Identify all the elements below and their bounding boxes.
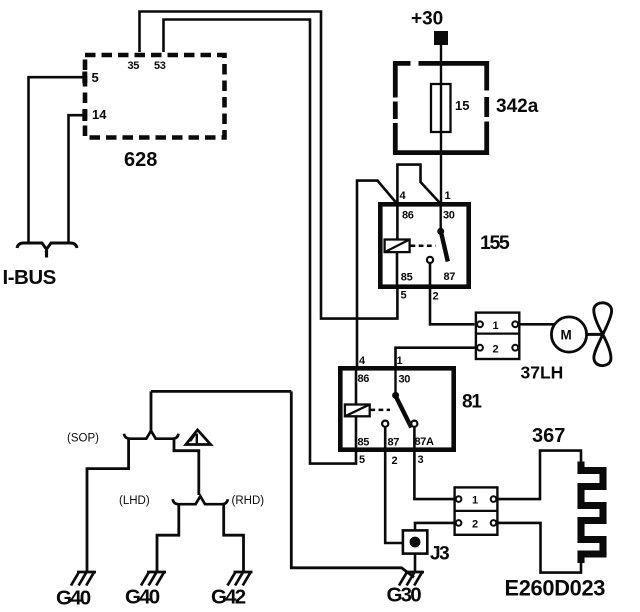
svg-text:G42: G42 [211, 586, 246, 609]
svg-text:G40: G40 [56, 587, 91, 610]
I-BUS center tick [45, 250, 48, 258]
svg-text:5: 5 [92, 70, 99, 85]
fuse holder box 342a border [393, 61, 489, 155]
pin 5 tick of 628 [82, 72, 87, 84]
svg-text:(LHD): (LHD) [119, 495, 150, 507]
svg-text:367: 367 [532, 425, 565, 447]
svg-text:4: 4 [359, 355, 366, 367]
heating element 367 [581, 462, 603, 564]
ground G30 symbol [399, 572, 424, 586]
ground G40 second symbol [141, 572, 166, 586]
wire coil feed: relay81 pin4 up and into 155 pin 4 [357, 181, 396, 367]
svg-text:1: 1 [472, 495, 478, 507]
svg-text:1: 1 [445, 190, 451, 202]
wire connector pin1 to element 367 top [496, 451, 581, 500]
wire RHD branch to ground G42 [224, 504, 244, 572]
relay 81 pin 85 lead [355, 416, 358, 450]
relay 155 contact pivot dot [437, 228, 444, 235]
pin 14 tick of 628 [82, 110, 87, 122]
svg-text:(SOP): (SOP) [67, 433, 99, 445]
relay 155 contact 87 terminal [427, 257, 433, 263]
warning triangle [186, 430, 211, 445]
wire 37LH pin1 to motor [518, 323, 555, 326]
svg-text:5: 5 [401, 290, 407, 302]
relay 81 coil-contact dashed link [370, 409, 390, 412]
wire 628 pin14 to I-BUS [69, 115, 84, 242]
svg-text:4: 4 [400, 190, 407, 202]
relay 81 switch blade [396, 397, 411, 428]
ground G42 symbol [228, 572, 253, 586]
wire 37LH pin2 to relay 81 pin 1 [396, 348, 478, 367]
svg-text:(RHD): (RHD) [232, 495, 265, 507]
svg-text:81: 81 [462, 392, 482, 413]
connector to 367 box [455, 487, 498, 534]
wire bridge 155 pin1 to pin4 [397, 165, 439, 203]
fan propeller lower blade [594, 334, 611, 365]
svg-text:G30: G30 [387, 584, 422, 607]
connector divider [455, 510, 498, 512]
svg-text:35: 35 [128, 60, 140, 72]
svg-text:2: 2 [433, 291, 439, 303]
wire motor to fan [587, 333, 601, 336]
fan motor M [551, 317, 586, 352]
relay 155 pin 86 lead [396, 204, 399, 240]
svg-text:342a: 342a [496, 96, 539, 117]
wire +30 through fuse to relay 155 pin 1 [440, 45, 442, 202]
node +30 feed square [434, 31, 448, 45]
wire SOP left branch to ground G40 [87, 439, 129, 572]
svg-text:86: 86 [358, 373, 370, 385]
svg-text:628: 628 [124, 149, 157, 171]
relay 81 coil [345, 405, 370, 417]
svg-text:1: 1 [397, 355, 403, 367]
connector pin contacts [456, 496, 497, 525]
svg-text:G40: G40 [125, 586, 160, 609]
wire connector pin2 to J3 top [415, 523, 455, 531]
svg-text:87: 87 [388, 437, 400, 449]
relay 155 pin 30 lead [440, 204, 442, 228]
fuse 15 element [431, 84, 451, 132]
junction J3 box [403, 530, 427, 553]
wire node to G30 junction [291, 391, 414, 577]
relay 81 pin 30 lead [394, 368, 396, 392]
wire SOP right branch to LHD/RHD switch [174, 439, 199, 495]
variant split SOP bus bar [124, 431, 179, 439]
svg-text:2: 2 [472, 519, 478, 531]
relay 81 box [340, 368, 453, 449]
svg-text:53: 53 [154, 60, 166, 72]
svg-text:J3: J3 [430, 544, 449, 565]
wire LHD branch to ground G40 [157, 504, 179, 572]
svg-text:+30: +30 [411, 9, 443, 30]
svg-text:30: 30 [399, 374, 411, 386]
svg-text:85: 85 [401, 271, 413, 283]
svg-text:86: 86 [402, 210, 414, 222]
svg-text:3: 3 [418, 454, 424, 466]
connector 37LH divider [476, 333, 519, 335]
svg-text:I-BUS: I-BUS [3, 266, 56, 289]
svg-text:E260D023: E260D023 [505, 576, 606, 601]
svg-text:1: 1 [493, 320, 499, 332]
svg-text:5: 5 [359, 454, 365, 466]
fan propeller upper blade [594, 303, 612, 335]
wire connector pin2 to element 367 bottom [496, 523, 581, 573]
svg-text:85: 85 [358, 437, 370, 449]
variant split LHD/RHD bus bar [173, 496, 228, 504]
junction J3 dot [410, 537, 421, 548]
wire node to SOP switch [150, 391, 153, 430]
svg-text:37LH: 37LH [521, 363, 564, 383]
svg-text:15: 15 [455, 98, 469, 113]
relay 155 switch blade [441, 232, 448, 262]
relay 155 coil [385, 240, 410, 253]
svg-text:155: 155 [480, 232, 510, 254]
relay 81 pin 86 lead [355, 368, 358, 405]
wire relay 81 pin 3 (87A) to connector pin 1 [414, 427, 454, 499]
svg-text:87A: 87A [415, 436, 435, 448]
wire relay 155 pin 2 (87) to 37LH pin 1 [430, 263, 475, 324]
wire 628 pin35 to relay 155 pin 5 [140, 12, 398, 319]
wire 628 pin53 to relay 81 pin 5 [164, 20, 357, 464]
37LH pin contacts [477, 321, 518, 350]
svg-text:2: 2 [493, 344, 499, 356]
ground G40 first symbol [71, 572, 96, 586]
svg-text:30: 30 [443, 210, 455, 222]
relay 81 contact pivot dot [392, 392, 399, 399]
relay 81 contact 87 terminal [382, 421, 388, 427]
relay 155 coil-contact dashed link [411, 245, 436, 248]
wire variant-select node bar [151, 390, 291, 393]
svg-text:M: M [561, 328, 572, 343]
relay 81 contact 87A terminal [411, 421, 417, 427]
connector 37LH box [476, 313, 519, 359]
I-BUS bus bar [17, 243, 77, 249]
relay 155 pin 85 lead [396, 252, 399, 287]
wire J3 to ground G30 [414, 554, 417, 572]
svg-text:14: 14 [92, 107, 107, 122]
wire relay 81 pin 2 (87) to J3 [385, 427, 403, 543]
wire 628 pin5 to I-BUS [29, 77, 84, 242]
svg-text:2: 2 [392, 455, 398, 467]
svg-text:87: 87 [444, 271, 456, 283]
control unit 628 (dashed box) [85, 55, 225, 138]
relay 155 box [380, 204, 468, 286]
